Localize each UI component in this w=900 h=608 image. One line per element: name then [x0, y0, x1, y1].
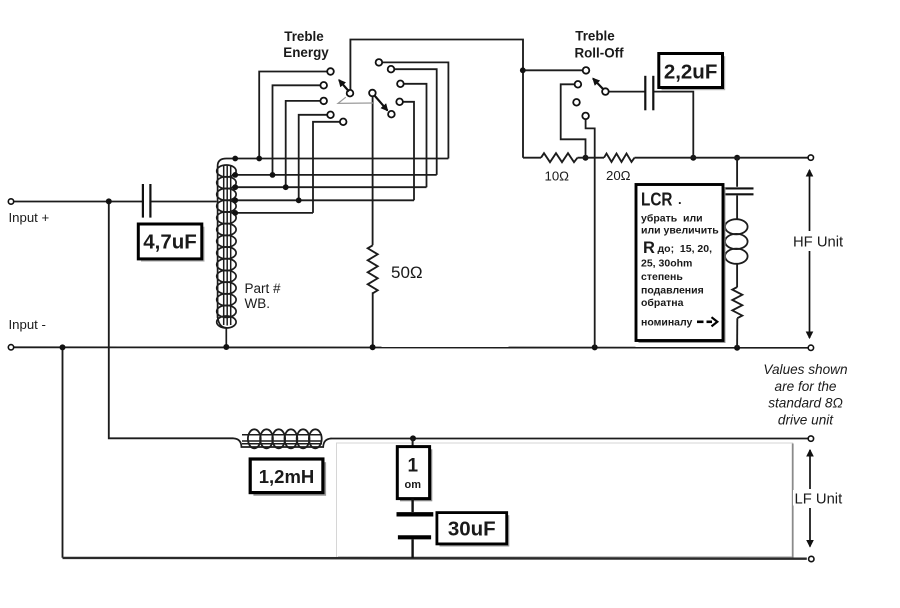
- switch S2 contact 3: [573, 99, 580, 106]
- capacitor 2,2uF plates: [645, 76, 653, 111]
- svg-text:LCR: LCR: [641, 189, 673, 210]
- LCR annotation box: [636, 185, 726, 344]
- wire: pivot P2 down to 50 ohm resistor: [372, 93, 374, 245]
- junction coil bottom at return rail: [223, 344, 229, 350]
- svg-text:до; 15, 20,: до; 15, 20,: [658, 243, 713, 255]
- wire: 30uF to LF bottom rail: [411, 539, 413, 558]
- autotransformer Part # WB (coil): [217, 159, 236, 348]
- svg-text:are for the: are for the: [775, 379, 837, 394]
- resistor 20R zigzag: [604, 154, 635, 162]
- junction tap4 at coil: [232, 197, 238, 203]
- capacitor 30uF plates: [397, 512, 434, 516]
- svg-text:2,2uF: 2,2uF: [664, 61, 718, 84]
- wire: 4,7uF cap to autotransformer left side: [151, 201, 217, 203]
- resistor 50R zigzag: [368, 245, 378, 293]
- switch S2 Treble Roll-Off wiring: T2 path to rail: [561, 84, 586, 157]
- wire: vertical from Input+ junction down to LF rail, then right to 1,2mH: [109, 202, 234, 438]
- svg-text:Values shown: Values shown: [763, 362, 847, 377]
- wire: LF top rail from 1,2mH to LF+ terminal: [331, 438, 809, 440]
- wire: pivot P1 up, over and down to resistor rail: [350, 40, 523, 158]
- switch S1a contact 4: [327, 112, 334, 119]
- svg-text:номиналу: номиналу: [641, 317, 693, 329]
- svg-text:drive unit: drive unit: [778, 412, 834, 427]
- junction tap3 to S1a contact 3: [283, 184, 289, 190]
- junction tap3 at coil: [232, 184, 238, 190]
- HF shunt branch: top lead: [736, 158, 738, 187]
- wire between 10R and 20R: [578, 157, 605, 159]
- resistor rail left segment: [523, 157, 541, 159]
- LF Unit arrow down: [809, 508, 811, 547]
- wire: 1 om to 30uF cap: [411, 499, 413, 512]
- junction 2,2uF at HF rail: [690, 155, 696, 161]
- svg-text:Part #: Part #: [245, 281, 282, 296]
- wire: junction to Roll-Off contact T1: [523, 69, 586, 71]
- svg-text:LF Unit: LF Unit: [795, 492, 843, 508]
- wire: contact C1 riser: [259, 72, 330, 159]
- junction tap4 to S1a contact 4: [296, 197, 302, 203]
- resistor 1 om box: [397, 447, 432, 502]
- junction input- to LF return: [60, 344, 66, 350]
- switch S2 contact 4: [582, 113, 589, 120]
- svg-text:WB.: WB.: [245, 296, 271, 311]
- switch S1a contact 2: [320, 82, 327, 89]
- svg-text:подавления: подавления: [641, 285, 704, 297]
- switch S1a contact 1: [327, 68, 334, 75]
- junction 1 om branch at LF rail: [410, 435, 416, 441]
- wire: tap 3 line: [232, 186, 427, 188]
- note text: values shown: [763, 362, 847, 427]
- svg-text:HF Unit: HF Unit: [793, 234, 843, 250]
- svg-text:убрать или: убрать или: [641, 213, 703, 225]
- svg-text:standard 8Ω: standard 8Ω: [768, 396, 843, 411]
- svg-text:25, 30ohm: 25, 30ohm: [641, 258, 692, 270]
- wire: contact D1 riser: [379, 62, 449, 158]
- svg-text:Treble: Treble: [284, 29, 323, 44]
- wire: cap to coil: [736, 196, 738, 221]
- svg-text:20Ω: 20Ω: [606, 168, 631, 183]
- wire: Input+ to 4,7uF cap: [14, 201, 142, 203]
- svg-text:4,7uF: 4,7uF: [143, 231, 197, 254]
- label LF Unit: [793, 490, 841, 506]
- label box 1,2mH: [250, 459, 326, 496]
- svg-text:1: 1: [408, 456, 419, 477]
- junction input+ feed: [106, 198, 112, 204]
- svg-text:Input -: Input -: [9, 317, 46, 332]
- junction LCR branch at return rail: [734, 345, 740, 351]
- svg-text:степень: степень: [641, 271, 683, 283]
- switch S2 wiper arrow: [593, 79, 604, 90]
- inductor (LCR network) loops: [725, 219, 748, 264]
- junction tap2 to S1a contact 2: [270, 172, 276, 178]
- wire: contact D2 riser: [391, 69, 437, 175]
- terminal HF+: [808, 155, 813, 160]
- svg-text:1,2mH: 1,2mH: [259, 466, 315, 487]
- wire: contact C2 riser: [273, 85, 324, 175]
- svg-text:R: R: [643, 239, 655, 257]
- svg-text:Treble: Treble: [575, 29, 614, 44]
- svg-text:30uF: 30uF: [448, 518, 496, 541]
- switch S1b contact 5: [388, 111, 395, 118]
- svg-text:10Ω: 10Ω: [545, 169, 570, 184]
- switch S1a contact 5: [340, 119, 347, 126]
- switch S1b wiper arrow: [375, 96, 388, 111]
- resistor (LCR network) zigzag: [732, 287, 742, 318]
- wire: 50R to mid rail: [372, 292, 374, 347]
- inductor 1,2mH: [234, 429, 332, 448]
- resistor 10R zigzag: [541, 153, 578, 162]
- wire: tap 2 line: [232, 174, 437, 176]
- wire: contact C3 riser: [286, 101, 324, 187]
- HF Unit arrow down: [809, 251, 811, 338]
- junction S2 contact 4 at return rail: [592, 344, 598, 350]
- junction LCR branch at HF rail: [734, 155, 740, 161]
- junction tap2 at coil: [232, 172, 238, 178]
- junction tap1 to S1a contact 1: [256, 156, 262, 162]
- switch S1b contact 4: [396, 99, 403, 106]
- capacitor 4,7uF plates: [143, 184, 151, 218]
- switch S2 wiper pivot: [602, 88, 609, 95]
- svg-text:50Ω: 50Ω: [391, 263, 423, 282]
- resistor 1 om: lead from LF rail: [412, 438, 414, 446]
- switch S1a contact 3: [320, 98, 327, 105]
- junction tap5 at coil: [232, 210, 238, 216]
- label box 4,7uF: [138, 224, 204, 262]
- wire: coil to resistor: [736, 264, 738, 288]
- switch S1a wiper arrow: [339, 80, 349, 92]
- switch S1a wiper pivot: [347, 90, 354, 97]
- svg-text:om: om: [405, 479, 422, 491]
- switch S1b wiper pivot: [369, 90, 376, 97]
- mechanical link (gray) between switch poles: [338, 97, 373, 103]
- switch S1b contact 1: [376, 59, 383, 66]
- svg-text:обратна: обратна: [641, 297, 684, 309]
- junction tap1 at coil: [232, 156, 238, 162]
- terminal Input-: [8, 345, 13, 350]
- wire: T4 down to mid rail: [586, 116, 595, 348]
- wire: resistor to mid rail: [736, 318, 738, 348]
- wire: contact D4 riser: [400, 102, 414, 201]
- wire: tap 1 line: [227, 158, 449, 160]
- terminal LF-: [809, 556, 814, 561]
- junction 10R-20R node: [583, 155, 589, 161]
- background patch (white rectangle over LF area): [337, 443, 793, 558]
- wire: left drop from Input- rail to LF bottom rail: [62, 347, 64, 557]
- wire: S2 pivot to 2,2uF cap: [605, 91, 644, 93]
- svg-text:или увеличить: или увеличить: [641, 225, 719, 237]
- svg-text:Input +: Input +: [9, 210, 50, 225]
- terminal LF+: [808, 436, 813, 441]
- LF Unit arrow up: [809, 450, 811, 489]
- wire: contact C4 riser: [299, 115, 331, 201]
- junction S1a wiper feed to S2: [520, 67, 526, 73]
- label box 2,2uF: [659, 54, 725, 91]
- wire: contact C5 riser: [313, 122, 343, 213]
- wire: tap 5 line: [232, 212, 313, 214]
- switch S1b contact 3: [397, 81, 404, 88]
- HF Unit arrow up: [809, 170, 811, 231]
- capacitor (LCR network) plates: [723, 188, 754, 194]
- wire: LF bottom rail: [63, 557, 807, 560]
- wire: tap 4 line: [232, 199, 414, 201]
- svg-text:Energy: Energy: [283, 45, 329, 60]
- wire: Input- mid rail to HF- terminal: [14, 346, 809, 348]
- wire: 2,2uF to resistor rail: [654, 92, 693, 158]
- label HF Unit: [791, 233, 847, 249]
- svg-text:.: .: [678, 192, 682, 207]
- switch S2 contact 1: [583, 67, 590, 74]
- switch S2 contact 2: [575, 81, 582, 88]
- switch S1b contact 2: [388, 66, 395, 73]
- terminal HF-: [808, 345, 813, 350]
- label box 30uF: [437, 513, 509, 547]
- wire: 20R to HF+ terminal: [635, 157, 809, 159]
- terminal Input+: [8, 199, 13, 204]
- junction 50R at return rail: [370, 344, 376, 350]
- wire: contact D3 riser: [400, 84, 426, 187]
- svg-text:Roll-Off: Roll-Off: [574, 46, 624, 61]
